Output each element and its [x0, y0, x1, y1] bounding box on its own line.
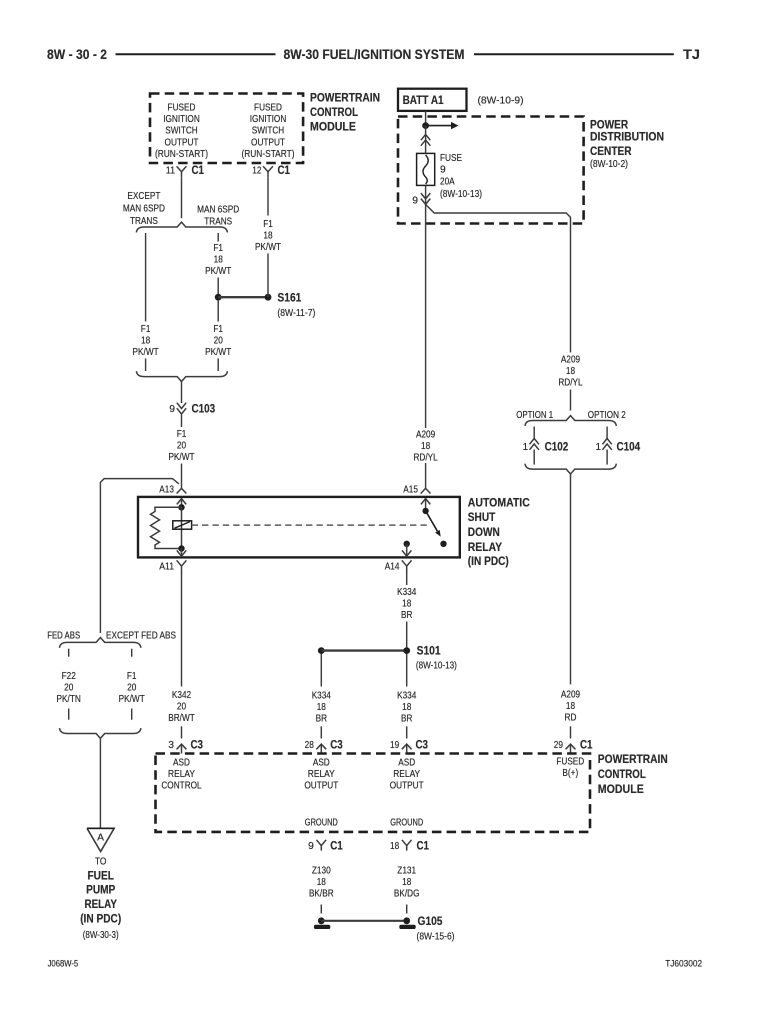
svg-text:A11: A11 — [159, 562, 174, 573]
svg-text:18: 18 — [402, 599, 411, 610]
svg-text:RD: RD — [565, 713, 577, 724]
svg-text:OUTPUT: OUTPUT — [251, 137, 285, 148]
connector C102 label — [545, 441, 569, 453]
wire label A209 18 RD/YL (PDC to options) — [558, 355, 583, 389]
svg-text:BATT A1: BATT A1 — [403, 93, 444, 107]
node S101 junction dot left — [318, 647, 325, 654]
connector C1 label (ground 9) — [330, 840, 343, 852]
pin 9 label (C103) — [169, 404, 175, 415]
svg-text:BR: BR — [401, 714, 412, 725]
svg-text:J068W-5: J068W-5 — [48, 959, 79, 969]
connector chevrons above fuse — [421, 126, 430, 154]
svg-text:C1: C1 — [417, 840, 430, 852]
svg-text:18: 18 — [141, 335, 150, 346]
label EXCEPT MAN 6SPD TRANS — [123, 191, 165, 227]
wire man6spd to splice — [217, 278, 219, 298]
wire label F1 18 PK/WT (left branch) — [133, 324, 160, 358]
node A13 label — [159, 484, 174, 495]
pin 12 label — [252, 166, 261, 177]
svg-text:MAN 6SPD: MAN 6SPD — [197, 204, 239, 215]
svg-text:OPTION 1: OPTION 1 — [516, 410, 553, 421]
svg-text:F1: F1 — [141, 324, 151, 335]
PCM label ASD RELAY OUTPUT (pin28) — [304, 758, 338, 792]
wire pin11 to trans split — [181, 177, 183, 218]
wire branch to fuel pump relay feed — [100, 479, 178, 633]
wire tick above C1 pin29 — [570, 726, 572, 738]
svg-text:F1: F1 — [213, 324, 223, 335]
pin 11 label — [166, 166, 175, 177]
wire S101 horizontal — [321, 649, 406, 651]
pin 9 label (ground) — [308, 841, 314, 852]
wire option2 branch upper — [606, 427, 608, 439]
svg-text:DOWN: DOWN — [468, 527, 500, 539]
svg-text:Z131: Z131 — [397, 866, 416, 877]
svg-text:(8W-10-13): (8W-10-13) — [416, 661, 457, 672]
wire label-to-S161 — [267, 254, 269, 298]
connector C102 chevrons — [530, 439, 539, 465]
wire man6spd branch upper tick — [217, 233, 219, 242]
node battery feed junction dot — [422, 122, 429, 129]
wire tick above C3 pin3 — [181, 726, 183, 738]
svg-text:IGNITION: IGNITION — [250, 114, 287, 125]
wire to option split — [570, 390, 572, 411]
connector A13 fork — [177, 488, 187, 493]
svg-text:F1: F1 — [127, 671, 137, 682]
svg-text:BK/BR: BK/BR — [309, 889, 334, 900]
wire left branch lower tick — [145, 359, 147, 372]
svg-text:9: 9 — [169, 404, 175, 415]
wire pin12 to label — [267, 177, 269, 215]
svg-text:OUTPUT: OUTPUT — [304, 781, 338, 792]
svg-text:FUEL: FUEL — [88, 870, 114, 882]
svg-text:A14: A14 — [385, 562, 400, 573]
relay coil resistor zigzag — [151, 507, 182, 548]
svg-text:28: 28 — [305, 740, 314, 751]
connector C3 label (pin 3) — [191, 740, 204, 752]
module name POWERTRAIN CONTROL MODULE (top) — [310, 93, 380, 134]
label FED ABS — [47, 630, 80, 641]
svg-text:B(+): B(+) — [562, 768, 578, 779]
connector C1 pin 9 fork — [316, 840, 326, 851]
svg-text:F1: F1 — [177, 429, 187, 440]
wire ground bus G105 — [321, 920, 406, 922]
svg-text:11: 11 — [166, 166, 175, 177]
svg-text:C103: C103 — [192, 403, 216, 415]
PCM label ASD RELAY CONTROL — [161, 758, 202, 792]
svg-text:A209: A209 — [561, 690, 580, 701]
svg-text:MODULE: MODULE — [598, 784, 644, 796]
svg-text:PK/WT: PK/WT — [205, 266, 232, 277]
svg-text:A13: A13 — [159, 484, 174, 495]
wire label F22 20 PK/TN — [57, 671, 81, 705]
svg-text:IGNITION: IGNITION — [163, 114, 200, 125]
svg-text:9: 9 — [308, 841, 314, 852]
svg-text:C1: C1 — [278, 165, 291, 177]
svg-text:MODULE: MODULE — [310, 122, 356, 134]
svg-text:20A: 20A — [440, 177, 455, 188]
battery feed BATT A1 box — [398, 89, 467, 111]
svg-text:PK/TN: PK/TN — [57, 694, 81, 705]
connector C1 pin 29 entry — [566, 744, 576, 753]
svg-text:ASD: ASD — [173, 758, 190, 769]
svg-text:C3: C3 — [416, 740, 429, 752]
wire option1 branch upper — [533, 427, 535, 439]
battery feed BATT A1 label — [403, 93, 444, 107]
split brace (trans options) — [136, 222, 227, 232]
svg-text:C1: C1 — [192, 165, 205, 177]
wire A14 to label — [406, 574, 408, 586]
svg-text:TRANS: TRANS — [204, 216, 232, 227]
connector C3 label (pin 28) — [330, 740, 343, 752]
node A11 label — [159, 562, 174, 573]
svg-text:BR: BR — [401, 610, 412, 621]
pin 1 label (C102) — [522, 442, 528, 453]
svg-text:FUSED: FUSED — [556, 757, 584, 768]
wire label F1 18 PK/WT (pin 12) — [255, 219, 282, 253]
svg-text:SWITCH: SWITCH — [252, 126, 285, 137]
connector C1 pin 18 fork — [402, 840, 412, 851]
wire tick above ground G105 left — [320, 905, 322, 914]
wire label to A15 fork — [425, 463, 427, 488]
svg-text:POWER: POWER — [590, 120, 629, 132]
svg-text:9: 9 — [440, 165, 446, 176]
svg-text:CONTROL: CONTROL — [310, 107, 358, 119]
relay switch blade — [426, 511, 441, 537]
wire S161 down to label — [217, 301, 219, 322]
svg-text:18: 18 — [421, 441, 430, 452]
svg-text:SHUT: SHUT — [468, 512, 496, 524]
svg-text:A209: A209 — [416, 430, 435, 441]
svg-text:OUTPUT: OUTPUT — [165, 137, 199, 148]
ground symbol left dot — [318, 917, 325, 924]
connector C103 label — [192, 403, 216, 415]
svg-text:A: A — [97, 833, 104, 844]
svg-text:20: 20 — [127, 683, 136, 694]
ground symbol right bar — [399, 925, 415, 929]
svg-text:BK/DG: BK/DG — [394, 889, 420, 900]
svg-text:TRANS: TRANS — [130, 216, 158, 227]
node S161 junction dot left — [215, 294, 222, 301]
svg-text:K342: K342 — [172, 690, 191, 701]
label EXCEPT FED ABS — [106, 630, 176, 641]
svg-text:18: 18 — [317, 877, 326, 888]
svg-text:RELAY: RELAY — [468, 542, 503, 554]
svg-text:RD/YL: RD/YL — [558, 378, 583, 389]
merge brace (fed abs options) — [60, 728, 141, 738]
svg-text:(RUN-START): (RUN-START) — [155, 149, 208, 160]
relay coil element box — [173, 521, 192, 529]
pin 1 label (C104) — [595, 442, 601, 453]
pin 29 label — [554, 740, 563, 751]
svg-text:RELAY: RELAY — [308, 769, 335, 780]
svg-text:8W-30 FUEL/IGNITION SYSTEM: 8W-30 FUEL/IGNITION SYSTEM — [284, 47, 465, 62]
wire fed-abs branch tick — [68, 649, 70, 657]
wire label A209 18 RD (to PCM) — [561, 690, 580, 724]
reference (8W-30-3) — [83, 930, 119, 941]
PCM label: FUSED IGNITION SWITCH OUTPUT (RUN-START) pin 12 — [241, 102, 294, 160]
wire merge to C103 — [181, 382, 183, 404]
pin 28 label — [305, 740, 314, 751]
svg-text:C102: C102 — [545, 441, 569, 453]
header model TJ — [683, 47, 700, 62]
connector A14 fork — [402, 560, 412, 574]
svg-text:18: 18 — [566, 366, 575, 377]
fuse label FUSE 9 20A (8W-10-13) — [440, 153, 482, 200]
svg-text:RELAY: RELAY — [84, 899, 117, 911]
svg-text:20: 20 — [214, 335, 223, 346]
connector C1 label (pin 11) — [192, 165, 205, 177]
split brace (fed abs options) — [60, 638, 141, 648]
wire relay coil vertical — [181, 507, 183, 548]
wire label F1 20 PK/WT (below splice) — [205, 324, 232, 358]
svg-text:RELAY: RELAY — [393, 769, 420, 780]
svg-text:(IN PDC): (IN PDC) — [468, 556, 509, 568]
wire except-fed-abs branch tick — [131, 649, 133, 657]
wire label K342 20 BR/WT — [168, 690, 195, 724]
wire tick above ground G105 right — [406, 905, 408, 914]
relay actuation dashed line — [192, 524, 430, 526]
svg-text:C1: C1 — [580, 740, 593, 752]
svg-text:PUMP: PUMP — [86, 885, 115, 897]
svg-text:18: 18 — [214, 255, 223, 266]
label MAN 6SPD TRANS — [197, 204, 239, 227]
reference (8W-10-9) — [478, 96, 524, 107]
relay A14 exit arrow — [402, 544, 411, 556]
svg-text:RD/YL: RD/YL — [413, 453, 438, 464]
connector chevrons below fuse — [421, 185, 430, 204]
svg-text:Z130: Z130 — [312, 866, 331, 877]
wire label K334 18 BR (A14 out) — [397, 587, 416, 621]
svg-text:12: 12 — [252, 166, 261, 177]
svg-text:POWERTRAIN: POWERTRAIN — [598, 754, 668, 766]
svg-text:K334: K334 — [397, 691, 416, 702]
module name AUTOMATIC SHUT DOWN RELAY (IN PDC) — [468, 498, 530, 569]
svg-text:20: 20 — [177, 702, 186, 713]
wire label K334 18 BR (left) — [312, 691, 331, 725]
svg-text:FED ABS: FED ABS — [47, 630, 80, 641]
connector A11 fork — [177, 560, 187, 574]
label OPTION 1 — [516, 410, 553, 421]
wire S161 horizontal — [218, 296, 268, 298]
connector C1 label (pin 29) — [580, 740, 593, 752]
wire merge to off-page connector A — [99, 738, 101, 828]
svg-text:20: 20 — [64, 683, 73, 694]
pin 9 label (fuse output) — [412, 196, 418, 207]
label OPTION 2 — [588, 410, 626, 421]
wire tick above C3 pin28 — [320, 726, 322, 738]
PCM label GROUND (pin9) — [305, 818, 338, 829]
wire except-fed-abs lower tick — [131, 709, 133, 720]
wire label A209 18 RD/YL (to A15) — [413, 430, 438, 464]
svg-text:S161: S161 — [277, 292, 302, 304]
pin 3 label — [168, 740, 174, 751]
svg-text:CENTER: CENTER — [590, 146, 632, 158]
connector A15 fork — [421, 488, 431, 493]
svg-text:C1: C1 — [330, 840, 343, 852]
connector C103 chevrons — [177, 403, 186, 414]
wire A11 to label — [181, 574, 183, 687]
relay A14 contact dot — [404, 541, 410, 547]
svg-text:GROUND: GROUND — [305, 818, 338, 829]
wire label to S101 — [406, 622, 408, 651]
svg-text:BR/WT: BR/WT — [168, 713, 195, 724]
off-page connector A letter — [97, 833, 104, 844]
header rule right — [474, 53, 674, 55]
svg-text:FUSE: FUSE — [440, 153, 462, 164]
wire S101 left leg down — [320, 654, 322, 687]
relay coil bottom junction dot — [178, 545, 184, 551]
svg-text:PK/WT: PK/WT — [205, 347, 232, 358]
powertrain control module (top) dashed box — [150, 94, 303, 164]
wire tick above C3 pin19 — [406, 726, 408, 738]
wire fuse output down — [425, 204, 427, 428]
svg-text:A209: A209 — [561, 355, 580, 366]
node S161 junction dot right — [265, 294, 272, 301]
svg-text:ASD: ASD — [398, 758, 415, 769]
arrow battery feed continuation — [426, 122, 459, 129]
svg-text:GROUND: GROUND — [390, 818, 423, 829]
svg-text:(8W-11-7): (8W-11-7) — [277, 308, 315, 319]
wire fuse output branch to C102/C104 — [426, 204, 571, 352]
splice S161 label — [277, 292, 315, 319]
connector C1 pin 12 fork — [263, 166, 273, 177]
header title 8W-30 FUEL/IGNITION SYSTEM — [284, 47, 465, 62]
connector C1 pin 11 fork — [177, 166, 187, 177]
svg-text:PK/WT: PK/WT — [133, 347, 160, 358]
PCM label FUSED B(+) — [556, 757, 584, 780]
svg-text:(8W-10-13): (8W-10-13) — [440, 189, 482, 200]
svg-text:29: 29 — [554, 740, 563, 751]
off-page connector A triangle — [87, 828, 114, 851]
wire S101 right leg down — [406, 654, 408, 687]
ground G105 label — [417, 916, 455, 943]
wire label F1 20 PK/WT (except fed abs) — [119, 671, 146, 705]
powertrain control module (bottom) dashed box — [156, 754, 591, 832]
svg-text:AUTOMATIC: AUTOMATIC — [468, 498, 530, 510]
wire label to A13 — [181, 464, 183, 489]
svg-text:FUSED: FUSED — [254, 102, 282, 113]
svg-text:18: 18 — [402, 877, 411, 888]
fuse 9 element — [417, 153, 435, 185]
wire C103 to label — [181, 415, 183, 428]
svg-text:TO: TO — [95, 857, 106, 868]
split brace (C102/C104 options) — [525, 416, 616, 426]
connector C104 chevrons — [602, 439, 611, 465]
svg-text:RELAY: RELAY — [168, 769, 195, 780]
node A14 label — [385, 562, 400, 573]
svg-text:EXCEPT FED ABS: EXCEPT FED ABS — [106, 630, 176, 641]
footer drawing number J068W-5 — [48, 959, 79, 969]
svg-text:1: 1 — [595, 442, 601, 453]
svg-text:9: 9 — [412, 196, 418, 207]
svg-text:(8W-15-6): (8W-15-6) — [417, 932, 455, 943]
svg-text:1: 1 — [522, 442, 528, 453]
svg-text:PK/WT: PK/WT — [119, 694, 146, 705]
svg-text:18: 18 — [263, 231, 272, 242]
connector C3 pin 3 entry — [177, 744, 187, 753]
wire label F1 20 PK/WT (C103 out) — [168, 429, 195, 463]
svg-text:PK/WT: PK/WT — [168, 452, 195, 463]
svg-text:20: 20 — [177, 440, 186, 451]
svg-text:PK/WT: PK/WT — [255, 242, 282, 253]
PCM label GROUND (pin18) — [390, 818, 423, 829]
wire fed-abs lower tick — [68, 709, 70, 720]
svg-text:CONTROL: CONTROL — [161, 781, 202, 792]
pin 18 label (ground) — [390, 841, 399, 852]
relay A11 exit arrow — [177, 549, 186, 557]
wire label F1 18 PK/WT (man6spd) — [205, 243, 232, 277]
relay A15 entry arrow — [421, 499, 430, 511]
svg-text:C104: C104 — [617, 441, 641, 453]
node A15 label — [403, 484, 418, 495]
svg-text:3: 3 — [168, 740, 174, 751]
module name POWERTRAIN CONTROL MODULE (bottom) — [598, 754, 668, 796]
svg-text:POWERTRAIN: POWERTRAIN — [310, 93, 380, 105]
svg-text:(8W-10-9): (8W-10-9) — [478, 96, 524, 107]
module name POWER DISTRIBUTION CENTER (8W-10-2) — [590, 120, 664, 171]
svg-text:8W - 30 - 2: 8W - 30 - 2 — [47, 47, 107, 62]
svg-text:DISTRIBUTION: DISTRIBUTION — [590, 132, 664, 144]
svg-text:18: 18 — [566, 701, 575, 712]
svg-text:F1: F1 — [213, 243, 223, 254]
svg-text:G105: G105 — [418, 916, 444, 928]
svg-text:OPTION 2: OPTION 2 — [588, 410, 626, 421]
svg-text:18: 18 — [402, 702, 411, 713]
relay switch common dot — [422, 508, 428, 514]
svg-text:EXCEPT: EXCEPT — [127, 191, 161, 202]
node S101 junction dot right — [403, 647, 410, 654]
merge brace (trans options) — [136, 371, 227, 381]
wire label K334 18 BR (right) — [397, 691, 416, 725]
relay A13 entry arrow — [177, 499, 186, 508]
connector C3 pin 28 entry — [316, 744, 326, 753]
wire label Z130 18 BK/BR — [309, 866, 334, 900]
wire options merge down to label — [570, 474, 572, 684]
connector C1 label (pin 12) — [278, 165, 291, 177]
footer drawing number TJ603002 — [665, 959, 702, 969]
automatic shut down relay box — [138, 497, 460, 558]
connector C1 label (ground 18) — [417, 840, 430, 852]
svg-text:ASD: ASD — [313, 758, 330, 769]
ground symbol right dot — [403, 917, 410, 924]
splice S101 label — [416, 646, 457, 672]
PCM label ASD RELAY OUTPUT (pin19) — [390, 758, 424, 792]
svg-text:FUSED: FUSED — [168, 102, 196, 113]
relay switch contact dot — [440, 541, 446, 547]
svg-text:(IN PDC): (IN PDC) — [80, 914, 121, 926]
relay coil top junction dot — [178, 504, 184, 510]
connector C104 label — [617, 441, 641, 453]
wire man6spd lower tick — [217, 359, 219, 372]
svg-text:MAN 6SPD: MAN 6SPD — [123, 204, 165, 215]
wire label Z131 18 BK/DG — [394, 866, 420, 900]
wire except-man6spd branch — [145, 233, 147, 322]
svg-text:OUTPUT: OUTPUT — [390, 781, 424, 792]
ground symbol left bar — [314, 925, 330, 929]
svg-text:K334: K334 — [312, 691, 331, 702]
svg-text:(8W-10-2): (8W-10-2) — [590, 159, 628, 170]
svg-text:S101: S101 — [417, 646, 442, 658]
svg-text:K334: K334 — [397, 587, 416, 598]
svg-text:18: 18 — [317, 702, 326, 713]
svg-text:SWITCH: SWITCH — [165, 126, 198, 137]
svg-text:(RUN-START): (RUN-START) — [241, 149, 294, 160]
svg-text:BR: BR — [316, 714, 327, 725]
header rule left — [116, 53, 276, 55]
destination label FUEL PUMP RELAY (IN PDC) — [80, 870, 121, 925]
connector C3 label (pin 19) — [416, 740, 429, 752]
svg-text:F1: F1 — [263, 219, 273, 230]
